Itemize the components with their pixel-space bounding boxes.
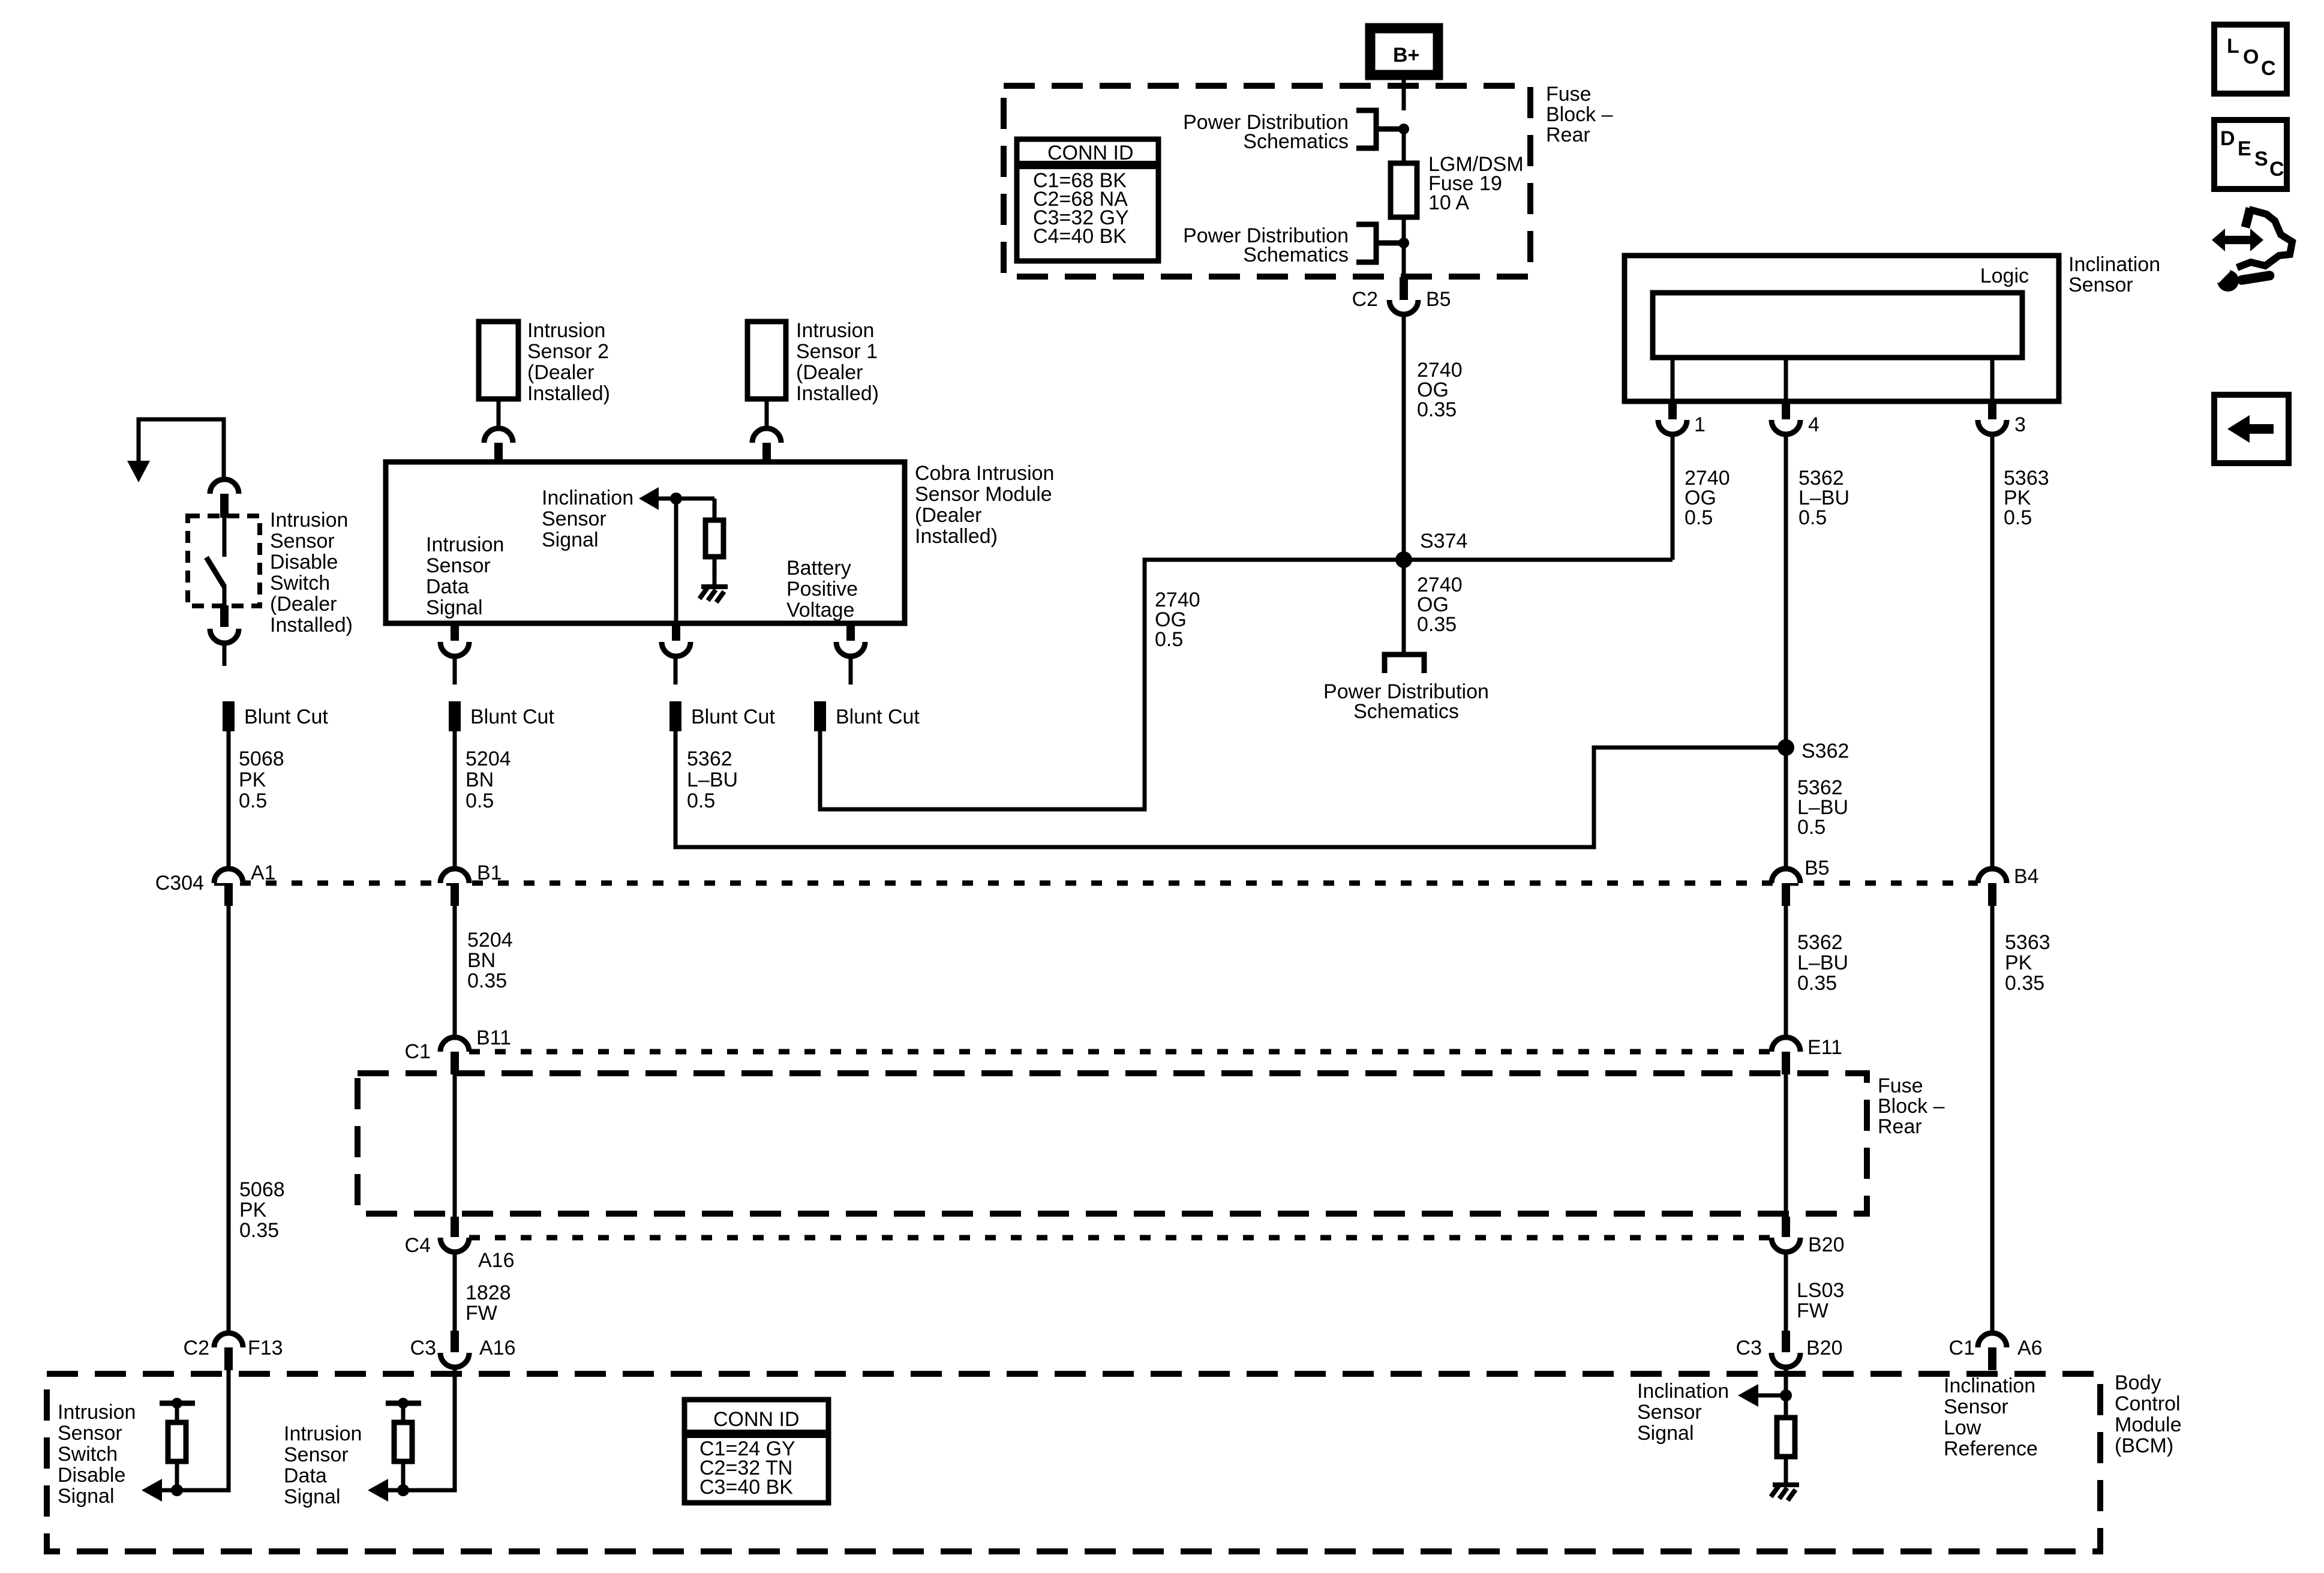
fuse block - rear dashed box (top) xyxy=(1004,86,1530,277)
svg-text:Sensor: Sensor xyxy=(58,1422,122,1445)
svg-text:L: L xyxy=(2227,35,2239,58)
svg-text:S374: S374 xyxy=(1420,530,1467,553)
svg-text:0.5: 0.5 xyxy=(2004,506,2032,529)
svg-text:F13: F13 xyxy=(248,1337,283,1359)
svg-text:0.35: 0.35 xyxy=(239,1219,279,1242)
pin 3 connector xyxy=(1978,401,2026,436)
svg-text:5204: 5204 xyxy=(467,929,513,951)
svg-text:Blunt Cut: Blunt Cut xyxy=(244,706,328,728)
wire resistor to ground xyxy=(713,557,717,586)
svg-text:0.5: 0.5 xyxy=(239,789,267,812)
svg-text:0.5: 0.5 xyxy=(1155,628,1183,651)
label 2740 OG 0.35 (below S374) xyxy=(1417,574,1463,636)
svg-text:C2: C2 xyxy=(1352,288,1378,311)
svg-text:Installed): Installed) xyxy=(796,382,879,405)
svg-text:Sensor 2: Sensor 2 xyxy=(527,340,609,363)
connector at switch bottom xyxy=(210,605,239,643)
svg-text:FW: FW xyxy=(466,1302,497,1325)
wire C3/A16 into BCM xyxy=(387,1367,455,1490)
svg-text:Battery: Battery xyxy=(786,557,851,580)
label Intrusion Sensor Disable Switch (Dealer Installed) xyxy=(270,509,353,637)
svg-text:S362: S362 xyxy=(1801,740,1849,763)
svg-text:Signal: Signal xyxy=(426,596,483,619)
wire LS03 FW xyxy=(1784,1252,1788,1333)
node junction lower xyxy=(1398,238,1409,248)
svg-text:5204: 5204 xyxy=(466,748,511,770)
svg-text:Disable: Disable xyxy=(58,1464,125,1487)
svg-text:0.35: 0.35 xyxy=(467,969,507,992)
svg-text:0.35: 0.35 xyxy=(2005,972,2044,995)
connector B20 (fuse block bottom) xyxy=(1771,1217,1845,1256)
blunt cut (switch branch) xyxy=(223,701,235,731)
svg-text:Fuse: Fuse xyxy=(1878,1074,1923,1097)
node on bar xyxy=(172,1398,182,1409)
svg-text:Inclination: Inclination xyxy=(1944,1374,2035,1397)
power distribution schematics reference (upper) xyxy=(1183,110,1399,153)
svg-text:PK: PK xyxy=(2005,951,2032,974)
blunt cut (inclination signal) xyxy=(669,701,681,731)
label Cobra Intrusion Sensor Module (Dealer Installed) xyxy=(915,462,1054,548)
svg-text:Intrusion: Intrusion xyxy=(796,319,874,342)
wire node to resistor xyxy=(713,499,717,520)
svg-text:Sensor: Sensor xyxy=(1637,1401,1702,1424)
arrowhead (inclination signal) xyxy=(1738,1384,1758,1407)
resistor (data signal) xyxy=(394,1422,412,1461)
svg-text:Low: Low xyxy=(1944,1416,1981,1439)
svg-text:Inclination: Inclination xyxy=(2068,253,2160,276)
switch pigtail wire xyxy=(223,643,227,666)
svg-text:Inclination: Inclination xyxy=(542,487,633,509)
svg-text:BN: BN xyxy=(466,769,494,791)
wire to fuse xyxy=(1402,129,1406,163)
svg-text:Blunt Cut: Blunt Cut xyxy=(691,706,775,728)
svg-text:5068: 5068 xyxy=(239,1178,285,1201)
svg-text:Cobra Intrusion: Cobra Intrusion xyxy=(915,462,1054,485)
svg-text:B20: B20 xyxy=(1806,1337,1843,1359)
svg-text:Intrusion: Intrusion xyxy=(284,1422,362,1445)
svg-text:C3: C3 xyxy=(410,1337,436,1359)
svg-text:PK: PK xyxy=(239,1199,267,1221)
BCM dashed box xyxy=(47,1374,2100,1551)
label 2740 OG 0.5 (riser) xyxy=(1155,589,1200,651)
connector C304 pin B4 xyxy=(1978,865,2039,906)
wire below S374 xyxy=(1402,560,1406,655)
connector E11 xyxy=(1771,1036,1842,1074)
svg-text:Reference: Reference xyxy=(1944,1437,2038,1460)
wire bar to resistor xyxy=(175,1403,179,1422)
svg-text:Fuse: Fuse xyxy=(1546,83,1592,106)
LOC icon xyxy=(2214,25,2287,94)
CONN ID table (BCM) xyxy=(684,1400,828,1503)
svg-text:5362: 5362 xyxy=(1797,931,1843,954)
splice S374 xyxy=(1395,551,1412,568)
svg-text:Schematics: Schematics xyxy=(1353,700,1459,723)
power distribution schematics reference (lower) xyxy=(1183,224,1399,266)
connector C3/A16 (BCM) xyxy=(410,1331,516,1367)
svg-text:Rear: Rear xyxy=(1546,124,1590,146)
svg-text:Signal: Signal xyxy=(284,1485,341,1508)
connector C2/B5 at fuse block bottom xyxy=(1352,277,1451,314)
svg-text:Block –: Block – xyxy=(1878,1095,1945,1118)
svg-text:Intrusion: Intrusion xyxy=(527,319,605,342)
arrowhead (switch disable signal) xyxy=(142,1479,162,1502)
label Intrusion Sensor Switch Disable Signal xyxy=(58,1401,136,1508)
wire node to module pin xyxy=(674,499,678,623)
svg-text:B4: B4 xyxy=(2014,865,2039,888)
pin 4 connector xyxy=(1771,401,1819,436)
resistor (inclination signal) xyxy=(1777,1418,1795,1457)
label Fuse Block - Rear (pass-through) xyxy=(1878,1074,1945,1138)
label Inclination Sensor Signal (module) xyxy=(542,487,633,551)
wire fuse to lower junction xyxy=(1402,217,1406,277)
svg-text:B1: B1 xyxy=(477,861,502,884)
svg-text:0.5: 0.5 xyxy=(466,789,494,812)
node (switch disable signal) xyxy=(171,1484,183,1496)
svg-text:Positive: Positive xyxy=(786,578,858,601)
svg-text:A16: A16 xyxy=(479,1337,516,1359)
connector line C304 xyxy=(214,881,1978,886)
splice S362 xyxy=(1777,739,1794,756)
svg-text:C3: C3 xyxy=(1736,1337,1762,1359)
svg-text:Sensor: Sensor xyxy=(1944,1395,2008,1418)
connector C3/B20 (BCM) xyxy=(1736,1331,1843,1367)
svg-text:(Dealer: (Dealer xyxy=(796,361,863,384)
connector C1/B11 xyxy=(405,1026,511,1074)
svg-text:Switch: Switch xyxy=(270,572,330,595)
svg-text:Data: Data xyxy=(426,575,469,598)
connector C304 pin A1 xyxy=(214,861,276,906)
wire bar to resistor xyxy=(401,1403,406,1422)
label 5362 L-BU 0.5 (left run) xyxy=(687,748,738,812)
svg-text:4: 4 xyxy=(1808,413,1819,436)
CONN ID table (fuse block) xyxy=(1017,139,1158,261)
label Power Distribution Schematics (bottom) xyxy=(1323,680,1489,723)
connector at switch top xyxy=(210,479,239,518)
wire pin4 5362 L-BU 0.5 xyxy=(1784,434,1788,748)
svg-text:0.35: 0.35 xyxy=(1417,398,1457,421)
wire resistor to ground xyxy=(1784,1457,1788,1484)
svg-text:5363: 5363 xyxy=(2005,931,2050,954)
svg-text:Rear: Rear xyxy=(1878,1115,1922,1138)
svg-text:Disable: Disable xyxy=(270,551,338,574)
node junction upper xyxy=(1398,124,1409,134)
svg-text:B5: B5 xyxy=(1804,857,1830,879)
wire from blunt cut 4 to S374 horizontal run (2740 OG 0.5) xyxy=(820,560,1673,809)
label 5362 L-BU 0.5 (below S362) xyxy=(1797,776,1848,839)
DESC icon xyxy=(2214,120,2287,189)
svg-text:O: O xyxy=(2243,46,2259,68)
connector C304 pin B5 xyxy=(1771,857,1830,906)
svg-text:Inclination: Inclination xyxy=(1637,1380,1729,1403)
wire 5204 BN 0.5 xyxy=(453,731,457,869)
svg-text:Blunt Cut: Blunt Cut xyxy=(836,706,920,728)
connector C1/A6 (BCM) xyxy=(1949,1333,2043,1370)
svg-text:C3=40 BK: C3=40 BK xyxy=(699,1476,793,1499)
svg-text:Signal: Signal xyxy=(1637,1422,1694,1445)
module internal arrow to inclination sensor signal xyxy=(639,487,659,510)
power distribution out-bracket xyxy=(1385,655,1424,673)
svg-text:C1: C1 xyxy=(1949,1337,1975,1359)
svg-text:Schematics: Schematics xyxy=(1243,130,1349,153)
connector C4/A16 xyxy=(405,1217,515,1272)
ground (BCM) xyxy=(1771,1485,1799,1500)
svg-text:Control: Control xyxy=(2115,1392,2181,1415)
label 2740 OG 0.35 (above S374) xyxy=(1417,359,1463,421)
svg-text:D: D xyxy=(2220,127,2235,150)
svg-text:1: 1 xyxy=(1694,413,1706,436)
svg-text:C: C xyxy=(2269,158,2284,181)
svg-text:(BCM): (BCM) xyxy=(2115,1434,2173,1457)
connector C2/F13 xyxy=(184,1333,283,1370)
svg-text:E: E xyxy=(2238,137,2251,160)
svg-text:C4=40 BK: C4=40 BK xyxy=(1033,225,1127,248)
svg-text:C1: C1 xyxy=(405,1040,431,1063)
sensor internal pin wires xyxy=(1671,358,1675,401)
battery feed B+ box xyxy=(1370,28,1438,75)
wire 2740 OG 0.35 down to S374 xyxy=(1402,314,1406,560)
svg-text:Switch: Switch xyxy=(58,1443,118,1466)
svg-text:5068: 5068 xyxy=(239,748,284,770)
svg-text:Blunt Cut: Blunt Cut xyxy=(470,706,554,728)
wire resistor to signal xyxy=(175,1461,179,1490)
svg-text:(Dealer: (Dealer xyxy=(270,593,337,616)
svg-text:Logic: Logic xyxy=(1980,265,2029,287)
connector line A16/B20 xyxy=(469,1235,1770,1241)
switch contacts and blade xyxy=(223,518,227,557)
connector C304 pin B1 xyxy=(440,861,502,906)
arrowhead (data signal) xyxy=(368,1479,388,1502)
svg-text:C4: C4 xyxy=(405,1234,431,1257)
wire B1 down (5204 BN 0.35) xyxy=(453,906,457,1038)
ground (module) xyxy=(699,587,728,602)
wire A1 to C2 (5068 PK 0.35) xyxy=(227,906,231,1333)
wire pin3 5363 PK 0.5 xyxy=(1990,434,1995,869)
svg-text:Installed): Installed) xyxy=(527,382,610,405)
svg-text:C2: C2 xyxy=(184,1337,209,1359)
svg-text:Sensor Module: Sensor Module xyxy=(915,483,1052,506)
node (module internal) xyxy=(670,493,682,505)
resistor (module pull-up) xyxy=(705,520,723,557)
svg-text:Block –: Block – xyxy=(1546,103,1613,126)
svg-text:10 A: 10 A xyxy=(1428,191,1469,214)
svg-text:B20: B20 xyxy=(1808,1233,1845,1256)
wire pin1 2740 OG 0.5 xyxy=(1671,434,1675,560)
logic block xyxy=(1653,293,2022,358)
svg-text:Intrusion: Intrusion xyxy=(270,509,348,532)
node (inclination signal) xyxy=(1780,1389,1792,1401)
wire 1828 FW xyxy=(453,1252,457,1333)
svg-text:A16: A16 xyxy=(478,1249,515,1272)
label Inclination Sensor Low Reference xyxy=(1944,1374,2038,1460)
svg-text:0.35: 0.35 xyxy=(1797,972,1837,995)
pull-up bar (data signal) xyxy=(386,1401,421,1406)
svg-text:Sensor: Sensor xyxy=(284,1443,349,1466)
svg-text:Voltage: Voltage xyxy=(786,599,854,622)
node (data signal) xyxy=(397,1484,409,1496)
svg-text:B5: B5 xyxy=(1426,288,1451,311)
svg-text:E11: E11 xyxy=(1807,1036,1842,1059)
blunt cut (data signal) xyxy=(449,701,461,731)
wire C2/F13 into BCM xyxy=(161,1370,229,1490)
module pin: inclination sensor signal xyxy=(662,623,690,656)
svg-text:Sensor: Sensor xyxy=(542,508,606,530)
cobra intrusion sensor module box xyxy=(386,462,905,623)
svg-text:A1: A1 xyxy=(251,861,276,884)
label Body Control Module (BCM) xyxy=(2115,1371,2182,1457)
wire C3/B20 into BCM xyxy=(1784,1367,1788,1418)
wire 5068 PK 0.5 down to C304 xyxy=(227,731,231,869)
wire resistor to signal xyxy=(401,1461,406,1490)
wire from blunt cut 3 to S362 (5362 L-BU 0.5) xyxy=(675,731,1786,847)
svg-text:Installed): Installed) xyxy=(270,614,353,637)
wire sensor 1 to module xyxy=(765,399,769,428)
svg-text:Sensor: Sensor xyxy=(426,554,491,577)
fuse block - rear dashed box (pass-through) xyxy=(358,1073,1867,1214)
wire through fuse block left xyxy=(453,1074,457,1218)
fuse LGM/DSM Fuse 19 10A xyxy=(1391,153,1524,217)
svg-text:C304: C304 xyxy=(155,872,204,894)
blunt cut (battery feed) xyxy=(814,701,826,731)
resistor (switch disable) xyxy=(168,1422,186,1461)
svg-text:L–BU: L–BU xyxy=(687,769,738,791)
arrowhead down xyxy=(127,461,150,482)
wire through fuse block right xyxy=(1784,1074,1788,1218)
svg-text:0.5: 0.5 xyxy=(1798,506,1827,529)
svg-text:Module: Module xyxy=(2115,1413,2182,1436)
back arrow icon xyxy=(2214,395,2289,463)
svg-text:Signal: Signal xyxy=(542,529,599,551)
wire B+ to fuse block xyxy=(1402,75,1406,110)
connector line B11/E11 xyxy=(469,1049,1770,1055)
svg-text:S: S xyxy=(2254,148,2268,170)
svg-text:0.5: 0.5 xyxy=(1797,816,1825,839)
label Fuse Block - Rear (top) xyxy=(1546,83,1613,146)
svg-text:B11: B11 xyxy=(476,1026,511,1049)
arrow line (inclination sensor signal) xyxy=(1757,1394,1786,1398)
svg-text:A6: A6 xyxy=(2017,1337,2043,1359)
svg-text:Data: Data xyxy=(284,1464,327,1487)
connector sensor 1 xyxy=(752,428,781,462)
pin 1 connector xyxy=(1658,401,1706,436)
wire B4 down (5363 PK 0.35) xyxy=(1990,906,1995,1333)
svg-text:L–BU: L–BU xyxy=(1797,951,1848,974)
svg-text:0.35: 0.35 xyxy=(1417,613,1457,636)
svg-text:B+: B+ xyxy=(1393,44,1419,67)
svg-text:LS03: LS03 xyxy=(1797,1279,1844,1302)
svg-text:Schematics: Schematics xyxy=(1243,244,1349,266)
node on bar xyxy=(398,1398,409,1409)
wire sensor 2 to module xyxy=(497,399,501,428)
pull-up bar (switch disable) xyxy=(160,1401,195,1406)
label Intrusion Sensor Data Signal (BCM) xyxy=(284,1422,362,1508)
svg-text:(Dealer: (Dealer xyxy=(915,504,981,527)
connector sensor 2 xyxy=(484,428,513,462)
svg-text:CONN ID: CONN ID xyxy=(1047,142,1134,164)
svg-text:1828: 1828 xyxy=(466,1281,511,1304)
svg-text:FW: FW xyxy=(1797,1299,1828,1322)
wire hook with arrow (to alarm system) xyxy=(139,419,224,478)
svg-text:Sensor: Sensor xyxy=(2068,274,2133,296)
svg-text:Sensor: Sensor xyxy=(270,530,335,553)
label Battery Positive Voltage (module) xyxy=(786,557,858,622)
label Inclination Sensor xyxy=(2068,253,2160,296)
svg-text:Sensor 1: Sensor 1 xyxy=(796,340,878,363)
harness routing icon (double arrow, harness outline, wrench) xyxy=(2211,208,2292,292)
svg-text:Signal: Signal xyxy=(58,1485,115,1508)
svg-text:PK: PK xyxy=(239,769,266,791)
svg-text:Installed): Installed) xyxy=(915,525,998,548)
svg-text:Body: Body xyxy=(2115,1371,2161,1394)
svg-text:5362: 5362 xyxy=(687,748,732,770)
intrusion sensor 2 (dealer installed) xyxy=(479,319,610,405)
svg-text:Intrusion: Intrusion xyxy=(58,1401,136,1424)
svg-text:0.5: 0.5 xyxy=(1685,506,1713,529)
wire B5 down (5362 L-BU 0.35) xyxy=(1784,906,1788,1038)
svg-text:(Dealer: (Dealer xyxy=(527,361,594,384)
svg-text:BN: BN xyxy=(467,949,496,972)
intrusion sensor 1 (dealer installed) xyxy=(747,319,879,405)
svg-text:Intrusion: Intrusion xyxy=(426,533,504,556)
svg-text:C: C xyxy=(2261,57,2276,80)
svg-text:0.5: 0.5 xyxy=(687,789,715,812)
inclination sensor box xyxy=(1625,256,2059,401)
module pin: intrusion sensor data signal xyxy=(440,623,469,656)
intrusion sensor disable switch (dealer installed) dashed box xyxy=(188,516,260,606)
svg-text:3: 3 xyxy=(2014,413,2026,436)
module pin: battery positive voltage xyxy=(836,623,865,656)
label Intrusion Sensor Data Signal (module) xyxy=(426,533,504,619)
wire S362 to B5 xyxy=(1784,748,1788,869)
label Inclination Sensor Signal (BCM) xyxy=(1637,1380,1729,1445)
svg-text:CONN ID: CONN ID xyxy=(713,1408,800,1431)
